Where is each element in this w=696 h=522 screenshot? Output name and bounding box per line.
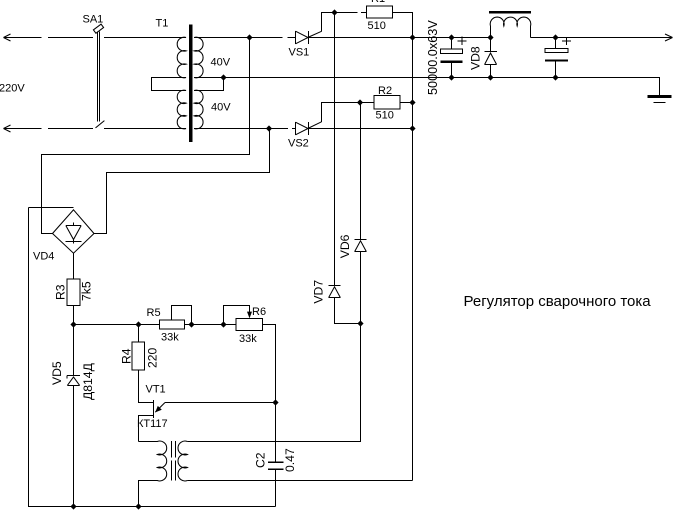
svg-text:40V: 40V [211,102,231,114]
transformer T1 secondary winding bottom half [194,90,203,129]
svg-text:R4: R4 [120,348,134,364]
node junction VS1 gate / R1 [331,9,337,15]
svg-text:33k: 33k [239,333,257,345]
node junction capacitor 2 bottom [552,74,558,80]
node junction R5 wiper [188,321,194,327]
thyristor VS2 [296,122,413,135]
diode VD8 [484,38,497,78]
wire T1 secondary lower winding top jog [194,78,223,91]
transformer T2 pulse left winding [139,441,158,443]
svg-text:33k: 33k [161,332,179,344]
node junction R6 loop [220,321,226,327]
node junction top secondary [246,34,252,40]
svg-text:VD6: VD6 [338,234,352,258]
svg-text:R6: R6 [252,306,266,318]
svg-text:VT1: VT1 [146,384,166,396]
svg-text:VD5: VD5 [50,361,64,385]
wire R2 right lead to rail [400,102,413,104]
thyristor VS1 [296,31,413,44]
node junction VD5 bottom [70,503,76,509]
wire from bottom-secondary junction down-left to VD4 right corner [94,129,270,234]
wire VD4 bottom to R3 [73,253,75,279]
bridge rectifier VD4 [53,210,95,253]
node junction VD8 bottom [487,74,493,80]
wire T1 secondary bottom to VS2 anode [194,128,295,130]
wire T2 right winding bottom lead to right rail [187,480,412,482]
ground [648,97,672,103]
svg-text:220V: 220V [0,83,25,95]
wire right rail [412,13,414,481]
wire R2 left lead [361,102,375,104]
node junction capacitor 1 top [448,34,454,40]
capacitor C2 [268,403,283,507]
node junction center tap [220,74,226,80]
node junction capacitor 1 bottom [448,74,454,80]
svg-text:R5: R5 [147,307,161,319]
node junction bottom secondary [266,125,272,131]
node junction VS2 gate / VD6 / R2 [357,99,363,105]
wire R4 top lead [138,325,140,343]
svg-text:510: 510 [376,110,394,122]
wire 220V top line with left arrow [4,34,94,41]
wire top wire VS1 to filter [413,37,491,39]
wire R3 to junction [73,305,75,324]
switch SA1 [93,24,104,128]
wire R1 right lead to rail [393,13,413,38]
wire output arrow head [665,34,673,41]
resistor R5 [160,320,185,329]
svg-text:VD8: VD8 [469,46,483,70]
node junction UJT emitter / R6 / C2 [272,399,278,405]
node junction VD8 top [487,34,493,40]
svg-text:0.47: 0.47 [283,448,297,472]
wire output minus bus from center tap to ground [224,78,660,96]
node junction VD6 / VD7 / T2 [357,320,363,326]
potentiometer R6 [236,319,263,331]
wire T2 right winding top lead to VD6/VD7 junction [187,324,360,442]
resistor R3 [67,279,80,305]
wire VD4 top corner to left rail [29,207,74,209]
wire VD6 column from R2 node down [360,103,362,240]
svg-text:220: 220 [146,347,160,368]
svg-text:R3: R3 [54,284,68,300]
svg-text:R2: R2 [378,85,392,97]
node junction R4 top [135,321,141,327]
wire R5 right lead [184,324,236,326]
svg-text:SA1: SA1 [83,14,104,26]
svg-text:T1: T1 [156,18,169,30]
svg-text:VD4: VD4 [33,251,54,263]
svg-text:VS2: VS2 [288,138,309,150]
svg-text:510: 510 [368,20,386,32]
wire R6 right lead down to UJT emitter node [263,325,276,403]
transistor VT1 unijunction [139,400,276,442]
svg-text:R1: R1 [371,0,385,5]
inductor L1 winding [491,26,531,38]
svg-text:40V: 40V [211,57,231,69]
wire switch to transformer primary top [104,37,186,39]
wire switch to transformer primary bottom [104,128,186,130]
diode VD6 [354,240,366,324]
transformer T1 core [189,25,193,143]
node junction rail VS2 [409,125,415,131]
wire R4 bottom lead to UJT base2 [139,370,154,403]
node junction rail top wire [409,34,415,40]
wire VD7 column from R1 node down [334,13,336,286]
transformer T1 primary winding bottom half [177,90,186,129]
transformer T2 core [172,441,176,481]
wire R1 left lead [335,12,367,14]
svg-text:50000.0x63V: 50000.0x63V [426,20,440,95]
svg-text:C2: C2 [254,452,268,468]
svg-text:КТ117: КТ117 [137,418,168,430]
node junction R3 bottom [70,321,76,327]
wire junction row to R5 [74,324,160,326]
svg-text:Регулятор сварочного тока: Регулятор сварочного тока [464,293,652,310]
wire T1 secondary center tap lead [194,77,223,79]
svg-text:VS1: VS1 [289,47,310,59]
wire R5 wiper loop [172,306,192,325]
resistor R1 [367,6,393,18]
svg-text:Д814Д: Д814Д [81,362,95,400]
node junction rail R2 [409,99,415,105]
wire left rail down to bottom rail [29,208,276,507]
transformer T1 primary winding top half [177,37,186,78]
wire VS2 gate to R2 node [309,122,322,128]
transformer T1 secondary winding top half [194,37,203,78]
node junction T2 left bottom [135,503,141,509]
svg-text:7k5: 7k5 [80,281,94,301]
wire R6 wiper loop with arrow [224,306,250,325]
wire T1 secondary top to VS1 anode [194,37,295,39]
wire 220V bottom line with left arrow [4,125,94,132]
zener diode VD5 [67,325,80,507]
transformer T2 right winding [178,441,187,481]
resistor R4 [132,342,145,370]
svg-text:VD7: VD7 [312,280,326,304]
node junction capacitor 2 top [552,34,558,40]
resistor R2 [374,95,400,109]
wire VS1 gate to R1 node [309,31,322,37]
capacitor 50000.0x63V (electrolytic) [440,37,466,78]
wire inductor output to arrow [531,37,673,39]
wire T1 primary center jog [152,78,187,91]
wire from top-secondary junction down-left to VD4 left corner [42,38,250,234]
diode VD7 [328,286,360,324]
inductor L1 core [489,11,531,14]
capacitor C output (electrolytic) [545,37,571,78]
